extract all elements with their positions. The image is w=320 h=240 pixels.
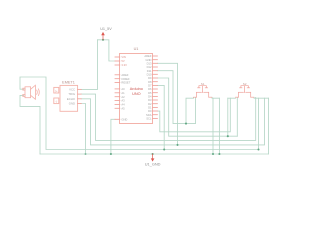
svg-text:D10: D10 bbox=[147, 72, 152, 76]
svg-text:A2: A2 bbox=[121, 95, 125, 99]
pushbutton S1 bbox=[194, 82, 212, 97]
svg-text:-): -) bbox=[55, 100, 57, 104]
wire button S1 right hook second drop to ground bus bbox=[218, 98, 220, 154]
svg-text:A0: A0 bbox=[121, 87, 125, 91]
svg-text:ECHO: ECHO bbox=[67, 97, 76, 101]
junction Arduino GND on ground bus bbox=[110, 153, 112, 155]
svg-text:5V: 5V bbox=[121, 59, 124, 63]
svg-text:Arduino: Arduino bbox=[130, 87, 143, 91]
svg-text:U1_5V: U1_5V bbox=[100, 27, 112, 31]
junction power tee bbox=[102, 39, 104, 41]
svg-text:VIN: VIN bbox=[121, 55, 126, 59]
wire 5V branch to sensor VCC bbox=[81, 40, 97, 90]
junction D13 wire on echo line bbox=[176, 144, 178, 146]
wire speaker minus to ground bus left end bbox=[20, 95, 40, 154]
ground symbol U1_GND bbox=[145, 153, 161, 167]
pushbutton S2 bbox=[236, 82, 254, 97]
svg-text:D11: D11 bbox=[147, 69, 152, 73]
svg-text:UNO: UNO bbox=[132, 92, 140, 96]
svg-text:D9: D9 bbox=[148, 76, 152, 80]
svg-text:D2: D2 bbox=[148, 102, 152, 106]
svg-text:D3: D3 bbox=[148, 98, 152, 102]
wire button S2 right hook bbox=[254, 96, 269, 99]
svg-text:(+: (+ bbox=[55, 89, 58, 93]
wire Arduino D9 across to button S2 inner-left bbox=[157, 78, 237, 136]
wire sensor TRIG down and across bbox=[81, 94, 256, 140]
svg-text:A1: A1 bbox=[121, 91, 125, 95]
left pin labels bbox=[121, 73, 130, 122]
wire speaker plus around top to long horizontal bbox=[20, 77, 259, 150]
wire Arduino D7 to speaker line bbox=[157, 85, 164, 149]
svg-text:U1: U1 bbox=[134, 47, 139, 51]
wire sensor GND to ground bus bbox=[81, 104, 85, 155]
svg-text:RESET: RESET bbox=[121, 81, 130, 85]
svg-text:AREF: AREF bbox=[121, 73, 129, 77]
wire Arduino D0 down and across to button S2 outer-left bbox=[157, 98, 235, 132]
svg-text:IOREF: IOREF bbox=[121, 77, 130, 81]
wire Arduino GND pin down to ground bus bbox=[111, 119, 115, 154]
junction S1 outer-left on D11 line bbox=[185, 123, 187, 125]
wire button S2 inner-left leg to D9 line end bbox=[236, 97, 238, 136]
junction S1 hook second drop on ground bus bbox=[218, 153, 220, 155]
junction D7 wire on speaker line bbox=[163, 148, 165, 150]
power symbol U1_5V bbox=[100, 27, 112, 40]
wire 5V rail from power tee to Arduino 5V pin bbox=[98, 40, 116, 61]
svg-text:SCL: SCL bbox=[146, 117, 152, 121]
svg-text:TRIG: TRIG bbox=[68, 92, 75, 96]
svg-text:D0: D0 bbox=[148, 109, 152, 113]
svg-text:A5: A5 bbox=[121, 106, 125, 110]
wire button S2 hook drop to speaker line bbox=[258, 98, 260, 149]
wire button S1 outer-left hook bbox=[186, 97, 194, 123]
junction S2 outer-left on D9 line bbox=[227, 135, 229, 137]
junction sensor GND on ground bus bbox=[84, 153, 86, 155]
right pin labels bbox=[144, 54, 152, 120]
wire sensor ECHO down and across bbox=[81, 98, 264, 145]
speaker LS1 bbox=[23, 85, 40, 99]
svg-text:GND: GND bbox=[69, 102, 75, 106]
wire ground bus bottom bbox=[40, 153, 269, 155]
svg-text:VCC: VCC bbox=[69, 88, 75, 92]
left pin stubs bbox=[115, 57, 120, 119]
junction S2 hook drop on speaker line bbox=[257, 148, 259, 150]
wire button S1 right hook bbox=[212, 96, 219, 99]
svg-text:S1: S1 bbox=[201, 82, 205, 86]
wire button S1 right hook first drop to ground bus bbox=[212, 98, 214, 154]
right pin stubs bbox=[153, 56, 158, 118]
wire Arduino D11 to button S1 left bbox=[157, 71, 195, 124]
microcontroller U1 Arduino UNO bbox=[115, 47, 157, 123]
svg-text:S2: S2 bbox=[243, 82, 247, 86]
svg-text:SDA: SDA bbox=[146, 113, 152, 117]
svg-text:A3: A3 bbox=[121, 99, 125, 103]
svg-text:D13: D13 bbox=[147, 61, 152, 65]
wire button S2 hook drop to ground bus right end bbox=[268, 98, 270, 154]
svg-text:AREF: AREF bbox=[144, 54, 152, 58]
svg-text:EMET1: EMET1 bbox=[62, 81, 75, 85]
junction S1 hook drop on ground bus bbox=[212, 153, 214, 155]
svg-text:GND: GND bbox=[121, 117, 127, 121]
wire button S2 left hook bbox=[228, 97, 231, 99]
svg-text:D8: D8 bbox=[148, 80, 152, 84]
svg-text:GND: GND bbox=[146, 58, 152, 62]
ultrasonic sensor EMET1 bbox=[54, 81, 81, 112]
svg-text:D7: D7 bbox=[148, 84, 152, 88]
svg-text:A4: A4 bbox=[121, 103, 125, 107]
left power pin labels bbox=[121, 55, 127, 67]
svg-text:D6: D6 bbox=[148, 87, 152, 91]
wire Arduino D13 to echo line bbox=[157, 63, 177, 145]
wire button S2 outer-left down to D9 line bbox=[227, 98, 229, 136]
svg-text:D4: D4 bbox=[148, 95, 152, 99]
svg-text:D5: D5 bbox=[148, 91, 152, 95]
svg-text:3.3V: 3.3V bbox=[121, 63, 127, 67]
svg-text:D12: D12 bbox=[147, 65, 152, 69]
svg-text:U1_GND: U1_GND bbox=[145, 162, 161, 167]
svg-text:D1: D1 bbox=[148, 106, 152, 110]
